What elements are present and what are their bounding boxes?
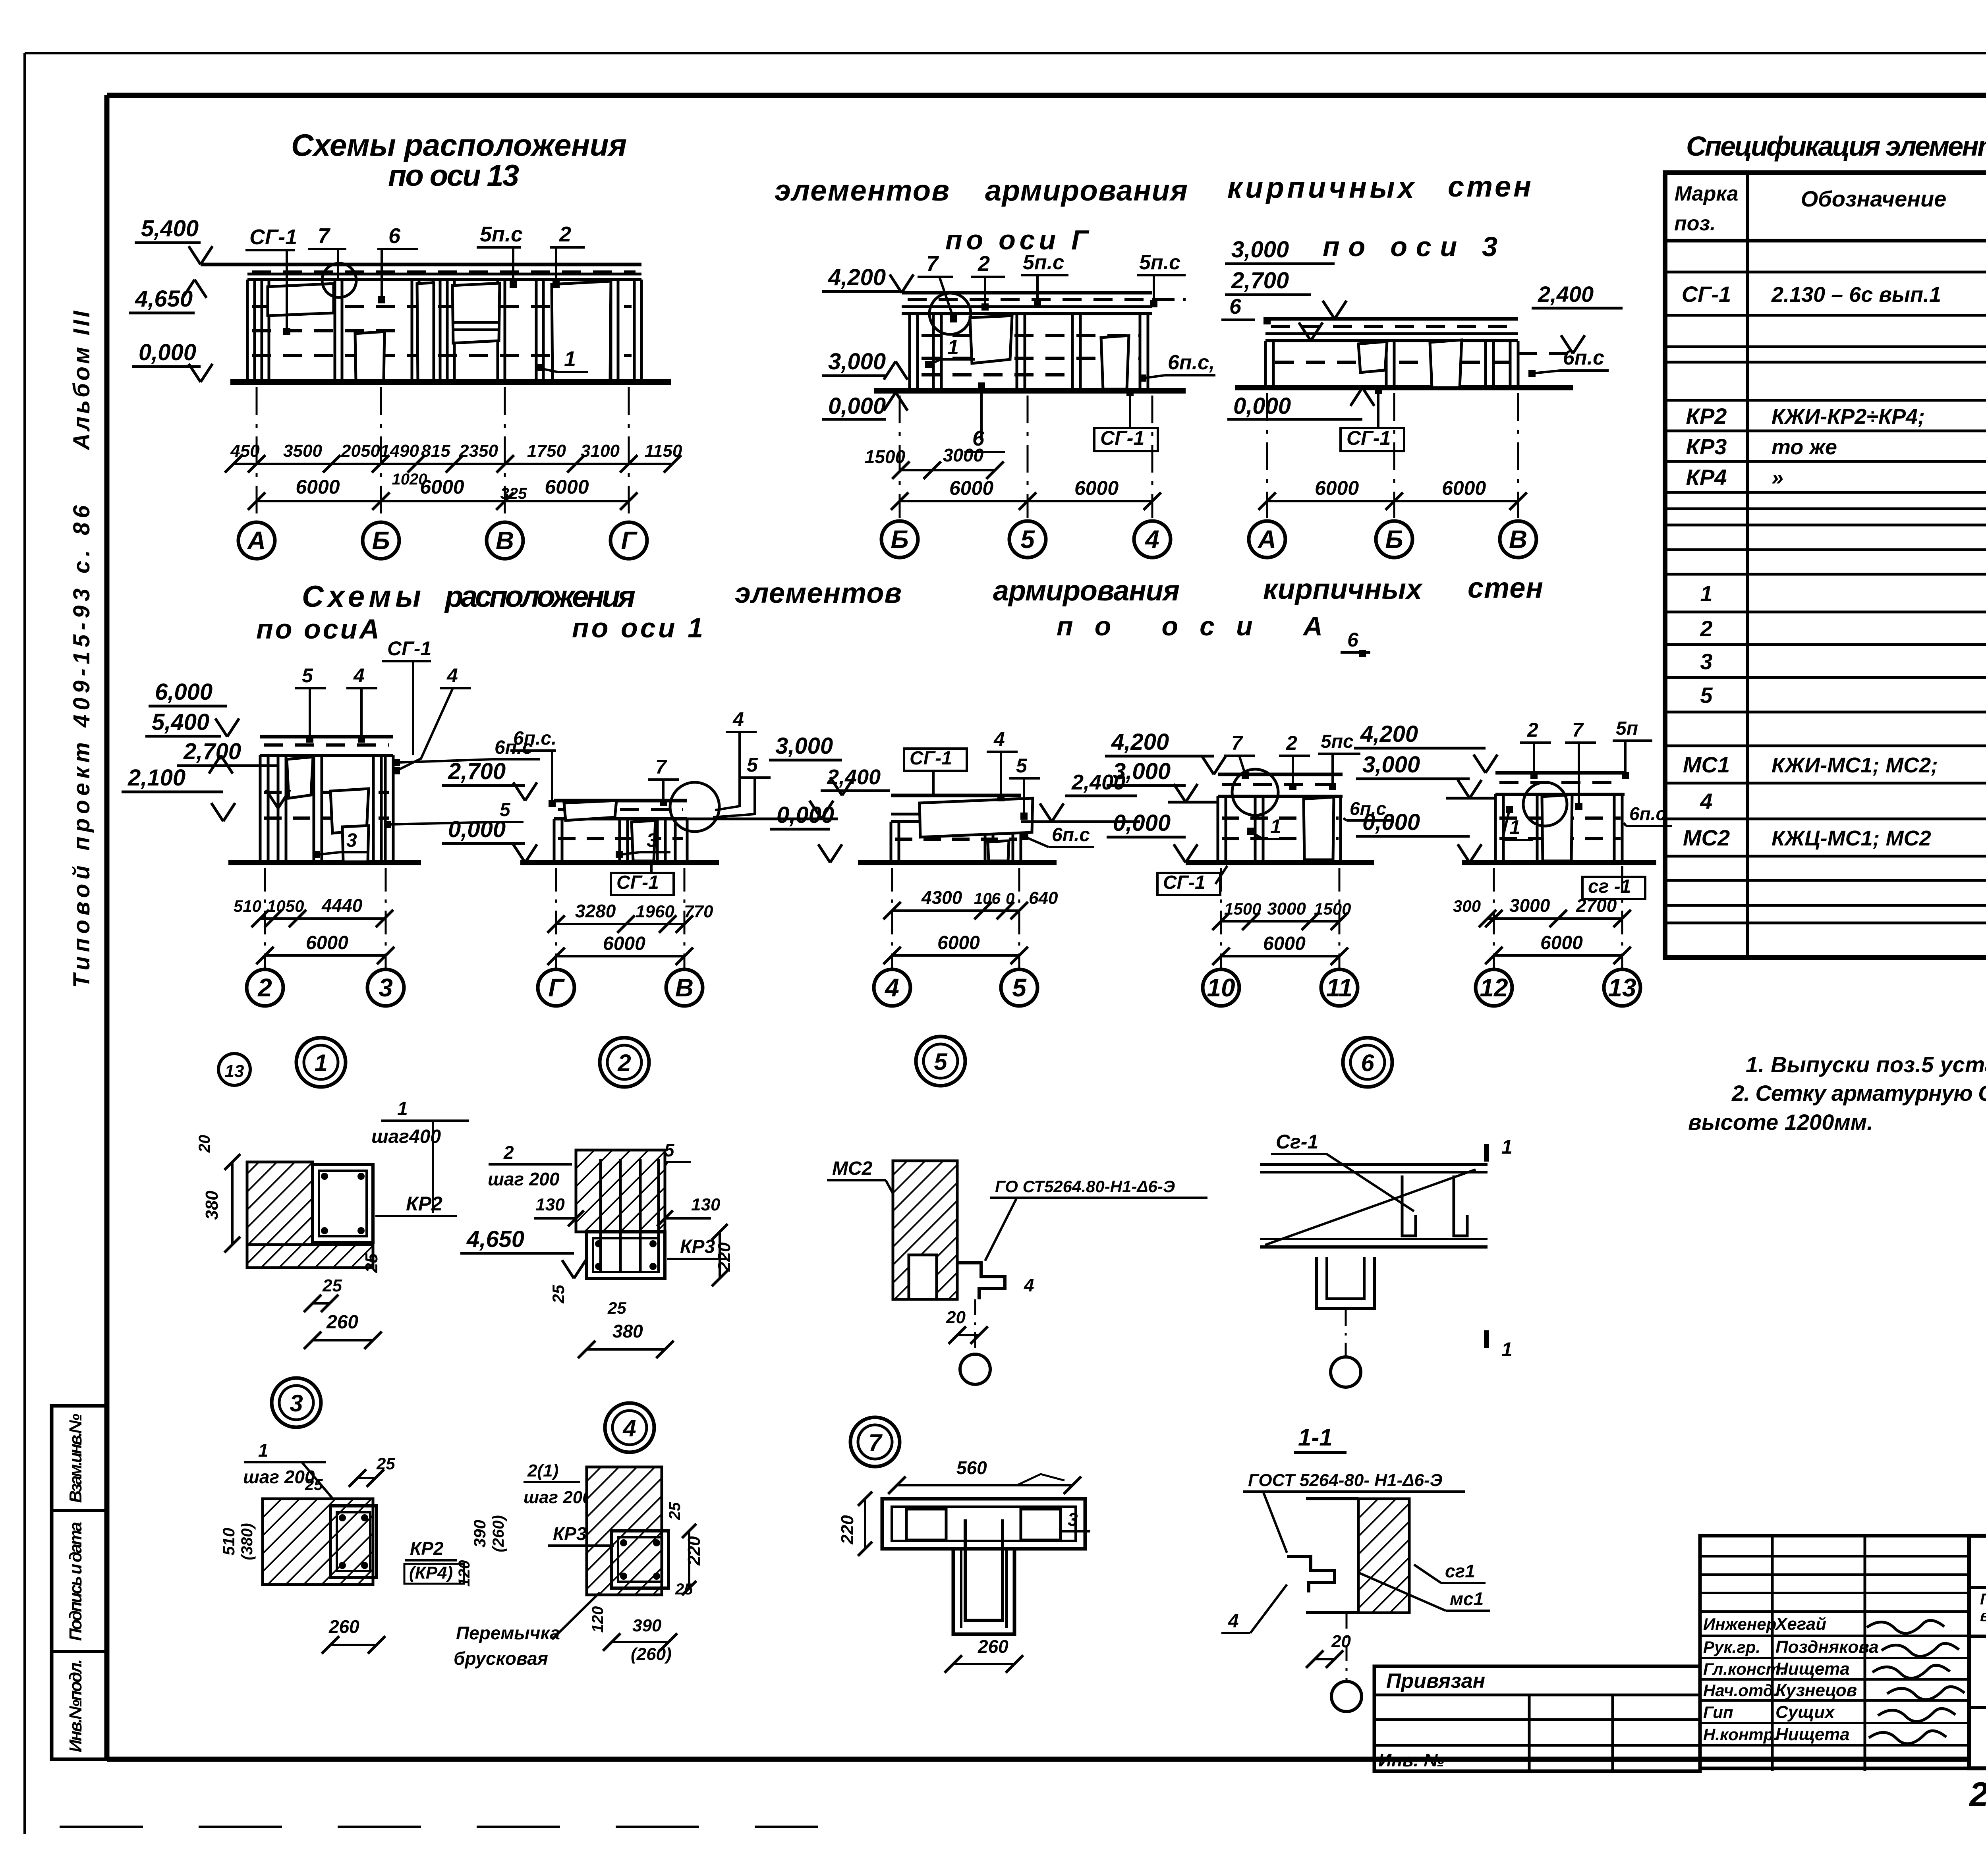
svg-text:3: 3	[379, 973, 393, 1002]
svg-text:Альбом III: Альбом III	[69, 310, 95, 451]
svg-text:1150: 1150	[645, 441, 682, 461]
svg-text:2,100: 2,100	[128, 765, 185, 791]
svg-text:2: 2	[617, 1050, 631, 1076]
svg-text:шаг 200: шаг 200	[243, 1467, 315, 1487]
svg-text:СГ-1: СГ-1	[616, 872, 659, 893]
svg-text:КР3: КР3	[680, 1236, 715, 1257]
svg-text:6000: 6000	[949, 477, 993, 499]
svg-text:МС1: МС1	[1683, 752, 1730, 777]
svg-text:7: 7	[868, 1429, 883, 1456]
svg-text:7: 7	[655, 756, 667, 778]
svg-text:(380): (380)	[238, 1523, 256, 1560]
svg-text:1490: 1490	[380, 441, 419, 461]
svg-text:кирпичных: кирпичных	[1263, 573, 1423, 605]
svg-text:120: 120	[456, 1560, 473, 1587]
svg-text:1. Выпуски поз.5 установить: 1. Выпуски поз.5 установить в шахматном …	[1746, 1052, 1986, 1077]
svg-text:Производственная база ремстро: Производственная база ремстройучастка с …	[1980, 1590, 1986, 1608]
svg-text:1: 1	[1509, 816, 1520, 838]
svg-text:13: 13	[1608, 973, 1636, 1002]
svg-text:мс1: мс1	[1450, 1588, 1484, 1609]
svg-text:120: 120	[589, 1606, 607, 1633]
svg-text:2: 2	[559, 222, 571, 246]
svg-text:6п.с,: 6п.с,	[1168, 351, 1215, 374]
svg-text:5: 5	[934, 1048, 948, 1075]
svg-text:Б: Б	[891, 525, 908, 554]
svg-text:высоте 1200мм.: высоте 1200мм.	[1688, 1110, 1873, 1135]
svg-text:2.130 – 6с вып.1: 2.130 – 6с вып.1	[1771, 283, 1941, 307]
svg-text:Марка: Марка	[1675, 182, 1739, 205]
svg-text:2(1): 2(1)	[527, 1461, 558, 1480]
svg-text:390: 390	[632, 1616, 662, 1635]
svg-text:6000: 6000	[1442, 477, 1486, 499]
svg-text:СГ-1: СГ-1	[387, 637, 431, 660]
svg-text:380: 380	[202, 1191, 222, 1220]
svg-text:(260): (260)	[490, 1515, 507, 1552]
svg-text:5п: 5п	[1616, 718, 1638, 739]
svg-text:25: 25	[666, 1502, 684, 1520]
svg-text:Нач.отд.: Нач.отд.	[1703, 1681, 1778, 1700]
svg-text:25: 25	[376, 1454, 395, 1473]
svg-text:5пс: 5пс	[1321, 731, 1354, 752]
svg-text:2050: 2050	[341, 441, 380, 461]
svg-text:Привязан: Привязан	[1386, 1669, 1485, 1693]
svg-text:Гип: Гип	[1703, 1703, 1733, 1722]
svg-text:шаг 200: шаг 200	[488, 1169, 560, 1189]
svg-text:25: 25	[305, 1476, 323, 1494]
svg-text:0,000: 0,000	[1113, 810, 1171, 836]
svg-text:1500: 1500	[1224, 899, 1261, 918]
svg-text:4: 4	[1700, 789, 1712, 814]
svg-text:Б: Б	[372, 526, 390, 555]
svg-text:по оси 3: по оси 3	[1323, 231, 1497, 262]
svg-text:5п.с: 5п.с	[1023, 251, 1064, 274]
svg-text:6000: 6000	[937, 932, 980, 953]
svg-text:(260): (260)	[631, 1644, 672, 1664]
svg-text:армирования: армирования	[985, 174, 1188, 207]
svg-text:2: 2	[978, 252, 990, 276]
svg-text:Сг-1: Сг-1	[1276, 1131, 1318, 1153]
svg-text:сг1: сг1	[1445, 1561, 1475, 1581]
svg-text:0,000: 0,000	[139, 340, 196, 365]
svg-text:2: 2	[1286, 732, 1297, 754]
svg-text:25: 25	[607, 1299, 626, 1317]
svg-text:КР3: КР3	[1686, 434, 1727, 459]
svg-text:Инженер: Инженер	[1703, 1615, 1776, 1633]
svg-text:Подпись и дата: Подпись и дата	[66, 1522, 85, 1641]
svg-text:стен: стен	[1468, 572, 1543, 604]
svg-text:5: 5	[1700, 683, 1713, 708]
svg-text:3,000: 3,000	[1231, 237, 1289, 262]
svg-text:по осиА: по осиА	[256, 614, 379, 645]
svg-text:по оси 13: по оси 13	[388, 159, 519, 193]
svg-text:Рук.гр.: Рук.гр.	[1703, 1638, 1760, 1656]
svg-text:4: 4	[622, 1415, 636, 1442]
svg-text:»: »	[1772, 466, 1783, 490]
svg-text:260: 260	[978, 1636, 1008, 1657]
svg-text:1: 1	[947, 336, 959, 359]
svg-text:КР2: КР2	[406, 1193, 442, 1215]
svg-text:Взам.инв.№: Взам.инв.№	[66, 1414, 85, 1503]
svg-text:то же: то же	[1772, 435, 1837, 459]
svg-text:Кузнецов: Кузнецов	[1775, 1681, 1857, 1700]
svg-text:260: 260	[326, 1312, 358, 1333]
svg-text:Схемы: Схемы	[302, 580, 421, 614]
svg-text:6000: 6000	[1263, 933, 1306, 954]
svg-text:4: 4	[353, 664, 365, 687]
svg-text:0,000: 0,000	[1362, 809, 1420, 835]
svg-text:Гл.конст.: Гл.конст.	[1703, 1660, 1785, 1678]
svg-text:6: 6	[1347, 629, 1359, 651]
svg-text:шаг400: шаг400	[371, 1126, 441, 1147]
svg-text:6: 6	[1229, 295, 1242, 318]
svg-text:СГ-1: СГ-1	[1100, 427, 1144, 449]
svg-text:6п.с: 6п.с	[1052, 824, 1090, 845]
svg-text:3: 3	[290, 1390, 303, 1417]
svg-text:Г: Г	[621, 526, 638, 555]
svg-text:3: 3	[647, 830, 657, 851]
svg-text:1: 1	[1501, 1136, 1513, 1158]
svg-text:2. Сетку арматурную СГ-1 ус: 2. Сетку арматурную СГ-1 установить с ша…	[1731, 1081, 1986, 1106]
svg-text:25: 25	[675, 1581, 693, 1598]
svg-text:0: 0	[1006, 890, 1014, 907]
svg-text:3: 3	[1068, 1509, 1078, 1530]
svg-text:КР2: КР2	[410, 1538, 444, 1559]
svg-text:5п.с: 5п.с	[1139, 251, 1180, 274]
svg-text:450: 450	[230, 441, 260, 461]
svg-text:6000: 6000	[296, 476, 340, 498]
svg-text:0,000: 0,000	[777, 802, 834, 828]
svg-text:Н.контр.: Н.контр.	[1703, 1725, 1778, 1744]
svg-text:1500: 1500	[1314, 899, 1351, 918]
svg-text:Нищета: Нищета	[1775, 1659, 1850, 1679]
svg-text:5: 5	[1012, 973, 1027, 1002]
svg-text:СГ-1: СГ-1	[1163, 872, 1206, 893]
svg-text:3: 3	[346, 830, 357, 851]
svg-text:13: 13	[225, 1062, 244, 1081]
svg-text:0,000: 0,000	[1233, 393, 1291, 419]
svg-text:3000: 3000	[1509, 895, 1550, 916]
svg-text:2,700: 2,700	[183, 739, 241, 764]
svg-text:390: 390	[470, 1520, 489, 1548]
svg-text:2700: 2700	[1576, 895, 1617, 916]
svg-text:4: 4	[732, 708, 744, 730]
svg-text:5п.с: 5п.с	[480, 222, 523, 246]
svg-text:СГ-1: СГ-1	[910, 748, 952, 769]
svg-text:А: А	[247, 526, 266, 555]
svg-text:2: 2	[1527, 719, 1538, 741]
svg-text:1050: 1050	[267, 897, 304, 915]
svg-text:4300: 4300	[921, 887, 962, 908]
svg-text:по оси А: по оси А	[1057, 611, 1323, 641]
svg-text:КЖИ-МС1; МС2;: КЖИ-МС1; МС2;	[1772, 753, 1938, 777]
svg-text:1750: 1750	[527, 441, 566, 461]
svg-text:3,000: 3,000	[1362, 752, 1420, 778]
svg-text:7: 7	[1572, 719, 1584, 741]
svg-text:3500: 3500	[283, 441, 322, 461]
svg-text:3,000: 3,000	[828, 349, 886, 374]
svg-text:25665-03: 25665-03	[1969, 1776, 1986, 1814]
svg-text:380: 380	[612, 1321, 643, 1341]
svg-text:6,000: 6,000	[155, 679, 213, 705]
svg-text:2: 2	[503, 1142, 514, 1163]
svg-text:элементов: элементов	[775, 174, 949, 207]
svg-text:220: 220	[715, 1242, 734, 1272]
svg-text:7: 7	[1231, 732, 1243, 754]
svg-text:КР2: КР2	[1686, 403, 1727, 428]
svg-text:6000: 6000	[603, 933, 645, 954]
svg-text:Схемы расположения: Схемы расположения	[291, 127, 627, 162]
svg-text:6п.с: 6п.с	[1629, 803, 1666, 824]
svg-text:6000: 6000	[1074, 477, 1119, 499]
svg-text:Перемычка: Перемычка	[456, 1623, 560, 1643]
svg-text:2350: 2350	[459, 441, 498, 461]
svg-text:5: 5	[747, 754, 758, 776]
svg-text:560: 560	[956, 1457, 987, 1478]
svg-text:Инв. №: Инв. №	[1378, 1750, 1445, 1770]
svg-text:6000: 6000	[420, 476, 464, 498]
svg-text:640: 640	[1029, 888, 1058, 908]
svg-text:1: 1	[1501, 1338, 1513, 1361]
svg-text:В: В	[496, 526, 514, 555]
svg-text:6: 6	[1361, 1050, 1374, 1076]
svg-text:770: 770	[684, 902, 713, 921]
svg-text:2,700: 2,700	[1231, 268, 1289, 293]
svg-text:4440: 4440	[321, 895, 363, 916]
svg-text:0,000: 0,000	[448, 816, 506, 842]
svg-text:КЖЦ-МС1; МС2: КЖЦ-МС1; МС2	[1772, 826, 1931, 850]
svg-text:4,200: 4,200	[1360, 721, 1418, 747]
svg-text:Сущих: Сущих	[1775, 1702, 1835, 1722]
svg-text:5: 5	[302, 664, 313, 687]
svg-text:6п.с.: 6п.с.	[513, 728, 556, 749]
svg-text:5,400: 5,400	[152, 709, 209, 735]
svg-text:1: 1	[258, 1440, 269, 1461]
svg-text:3: 3	[1700, 649, 1712, 674]
svg-text:армирования: армирования	[993, 575, 1180, 607]
svg-text:4: 4	[1144, 525, 1159, 554]
svg-text:кирпичных: кирпичных	[1227, 171, 1415, 204]
svg-text:брусковая: брусковая	[454, 1648, 548, 1669]
svg-text:КЖИ-КР2÷КР4;: КЖИ-КР2÷КР4;	[1772, 405, 1925, 428]
svg-text:12: 12	[1480, 973, 1508, 1002]
svg-text:3,000: 3,000	[775, 733, 833, 759]
svg-text:2,400: 2,400	[1538, 282, 1594, 307]
svg-text:ГО СТ5264.80-Н1-Δ6-Э: ГО СТ5264.80-Н1-Δ6-Э	[995, 1177, 1175, 1196]
svg-text:6п.с: 6п.с	[1563, 346, 1604, 369]
svg-text:поз.: поз.	[1674, 212, 1716, 235]
svg-text:20: 20	[196, 1135, 213, 1153]
svg-text:1: 1	[564, 347, 576, 371]
svg-text:4,200: 4,200	[828, 264, 886, 290]
svg-text:25: 25	[322, 1276, 342, 1295]
svg-text:10: 10	[1207, 973, 1235, 1002]
svg-text:6000: 6000	[545, 476, 589, 498]
svg-text:20: 20	[946, 1308, 966, 1327]
svg-text:Обозначение: Обозначение	[1801, 186, 1947, 211]
svg-text:МС2: МС2	[1683, 825, 1730, 850]
svg-text:3,000: 3,000	[1113, 759, 1171, 784]
svg-text:4: 4	[446, 664, 458, 687]
svg-text:В: В	[1509, 525, 1527, 554]
svg-text:4: 4	[993, 728, 1005, 750]
svg-text:130: 130	[691, 1195, 721, 1214]
svg-text:4,650: 4,650	[466, 1226, 524, 1252]
svg-text:300: 300	[1453, 897, 1481, 915]
svg-text:220: 220	[838, 1515, 857, 1545]
svg-text:вой программой 260тыс.руб.(д: вой программой 260тыс.руб.(для районов	[1980, 1607, 1986, 1625]
svg-text:260: 260	[328, 1616, 359, 1637]
svg-text:220: 220	[684, 1536, 704, 1566]
svg-text:4: 4	[1024, 1275, 1034, 1295]
svg-text:510: 510	[234, 897, 261, 915]
svg-text:20: 20	[1331, 1632, 1351, 1651]
svg-text:130: 130	[535, 1195, 565, 1214]
svg-text:106: 106	[974, 890, 1001, 907]
svg-text:шаг 200: шаг 200	[524, 1488, 592, 1507]
svg-text:1960: 1960	[636, 902, 674, 921]
svg-text:6000: 6000	[1315, 477, 1359, 499]
svg-text:Г: Г	[548, 973, 565, 1002]
svg-text:510: 510	[219, 1528, 238, 1556]
svg-text:Позднякова: Позднякова	[1775, 1637, 1879, 1657]
svg-text:по оси Г: по оси Г	[945, 224, 1090, 255]
svg-text:5: 5	[1020, 525, 1035, 554]
svg-text:11: 11	[1326, 973, 1352, 1002]
svg-text:2: 2	[1700, 616, 1712, 641]
svg-text:стен: стен	[1448, 170, 1531, 203]
svg-text:6000: 6000	[306, 932, 348, 953]
svg-text:МС2: МС2	[832, 1158, 873, 1179]
svg-text:3000: 3000	[943, 445, 984, 465]
svg-text:3280: 3280	[575, 901, 616, 921]
svg-text:2,700: 2,700	[448, 759, 506, 784]
svg-text:0,000: 0,000	[828, 393, 886, 419]
svg-text:7: 7	[926, 252, 939, 276]
svg-text:815: 815	[421, 441, 450, 461]
svg-text:КР4: КР4	[1686, 465, 1727, 490]
svg-text:3100: 3100	[581, 441, 620, 461]
svg-text:2: 2	[257, 973, 272, 1002]
svg-text:1: 1	[1270, 815, 1281, 838]
svg-text:элементов: элементов	[735, 577, 902, 609]
svg-text:Б: Б	[1385, 525, 1403, 554]
svg-text:1-1: 1-1	[1298, 1424, 1333, 1451]
svg-text:СГ-1: СГ-1	[1347, 427, 1391, 449]
svg-text:В: В	[675, 973, 694, 1002]
svg-text:5,400: 5,400	[141, 216, 199, 241]
svg-text:6: 6	[388, 224, 401, 248]
svg-text:25: 25	[549, 1285, 568, 1304]
svg-text:Нищета: Нищета	[1775, 1725, 1850, 1744]
svg-text:Инв.№подл.: Инв.№подл.	[66, 1659, 85, 1752]
svg-text:25: 25	[362, 1253, 381, 1273]
svg-text:7: 7	[318, 224, 331, 248]
svg-text:(КР4): (КР4)	[409, 1563, 453, 1583]
svg-text:КР3: КР3	[553, 1523, 587, 1544]
svg-text:1: 1	[1700, 581, 1712, 606]
svg-text:СГ-1: СГ-1	[1682, 282, 1731, 307]
svg-text:5: 5	[1016, 755, 1028, 777]
svg-text:Спецификация элементов армиров: Спецификация элементов армирования кирпи…	[1686, 131, 1986, 162]
svg-text:4: 4	[1228, 1611, 1239, 1632]
svg-text:1: 1	[314, 1050, 327, 1076]
svg-text:4: 4	[884, 973, 899, 1002]
svg-text:Хегай: Хегай	[1774, 1614, 1826, 1634]
svg-text:1: 1	[397, 1098, 408, 1119]
svg-text:ГОСТ 5264-80- Н1-Δ6-Э: ГОСТ 5264-80- Н1-Δ6-Э	[1248, 1471, 1442, 1490]
svg-text:А: А	[1257, 525, 1276, 554]
svg-text:расположения: расположения	[444, 580, 636, 614]
svg-text:3000: 3000	[1267, 899, 1306, 919]
svg-text:4,650: 4,650	[135, 286, 193, 312]
svg-text:СГ-1: СГ-1	[249, 225, 297, 249]
svg-text:4,200: 4,200	[1111, 729, 1169, 755]
svg-text:сг -1: сг -1	[1588, 876, 1631, 897]
svg-text:Типовой проект 409-15-93 с. 86: Типовой проект 409-15-93 с. 86	[69, 505, 95, 988]
svg-text:6000: 6000	[1540, 932, 1583, 953]
svg-text:по оси 1: по оси 1	[572, 612, 703, 643]
